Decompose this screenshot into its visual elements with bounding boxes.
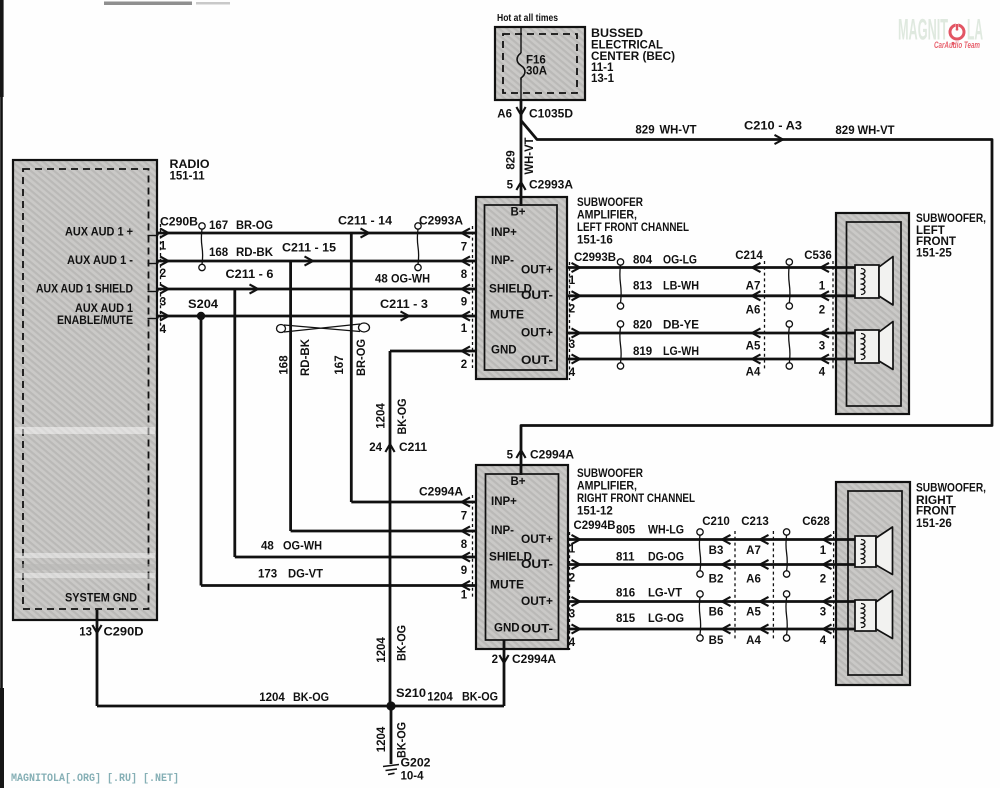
svg-text:C2993A: C2993A — [529, 180, 573, 192]
svg-text:BK-OG: BK-OG — [397, 722, 409, 758]
svg-text:2: 2 — [569, 573, 575, 585]
svg-text:C2993A: C2993A — [419, 216, 463, 228]
svg-text:7: 7 — [461, 511, 467, 523]
svg-text:3: 3 — [160, 297, 166, 309]
svg-text:S204: S204 — [188, 299, 219, 311]
svg-text:A7: A7 — [746, 281, 761, 293]
svg-text:5: 5 — [507, 180, 514, 192]
svg-text:FRONT: FRONT — [916, 506, 956, 518]
svg-text:8: 8 — [461, 539, 468, 551]
svg-text:2: 2 — [492, 654, 498, 666]
svg-text:30A: 30A — [526, 66, 547, 78]
svg-text:151-11: 151-11 — [170, 171, 206, 183]
svg-text:C211 - 15: C211 - 15 — [282, 243, 337, 255]
svg-text:C211 - 6: C211 - 6 — [226, 269, 274, 281]
svg-text:4: 4 — [160, 324, 167, 336]
svg-text:3: 3 — [569, 609, 575, 621]
svg-text:B2: B2 — [709, 574, 724, 586]
svg-text:151-12: 151-12 — [577, 506, 613, 518]
svg-text:816: 816 — [616, 588, 635, 600]
svg-text:LG-WH: LG-WH — [663, 346, 699, 358]
svg-text:A4: A4 — [746, 367, 761, 379]
svg-text:BK-OG: BK-OG — [293, 692, 329, 704]
svg-text:811: 811 — [616, 552, 635, 564]
svg-text:3: 3 — [569, 339, 575, 351]
svg-text:167: 167 — [209, 220, 228, 232]
svg-text:C290D: C290D — [104, 627, 144, 639]
svg-text:AMPLIFIER,: AMPLIFIER, — [577, 210, 637, 222]
svg-text:SUBWOOFER: SUBWOOFER — [577, 468, 644, 480]
svg-text:OUT+: OUT+ — [521, 265, 553, 277]
svg-text:4: 4 — [569, 367, 576, 379]
svg-text:C2993B: C2993B — [574, 252, 616, 264]
svg-text:820: 820 — [633, 320, 652, 332]
svg-text:INP+: INP+ — [491, 227, 517, 239]
svg-text:OG-WH: OG-WH — [283, 541, 322, 553]
svg-text:C2994B: C2994B — [574, 520, 616, 532]
svg-text:A4: A4 — [746, 635, 761, 647]
svg-text:168: 168 — [279, 355, 291, 375]
svg-text:OUT+: OUT+ — [521, 596, 553, 608]
svg-text:13-1: 13-1 — [591, 73, 615, 85]
svg-text:813: 813 — [633, 281, 652, 293]
svg-text:OUT+: OUT+ — [521, 328, 553, 340]
svg-text:24: 24 — [369, 442, 382, 454]
svg-text:SUBWOOFER,: SUBWOOFER, — [916, 213, 986, 225]
svg-text:3: 3 — [819, 341, 825, 353]
svg-text:48: 48 — [375, 274, 388, 286]
svg-text:BUSSED: BUSSED — [591, 28, 643, 40]
svg-text:1: 1 — [160, 241, 167, 253]
svg-text:4: 4 — [569, 637, 576, 649]
svg-text:RIGHT FRONT CHANNEL: RIGHT FRONT CHANNEL — [577, 493, 695, 505]
svg-text:9: 9 — [461, 565, 467, 577]
svg-text:C211: C211 — [399, 442, 428, 454]
svg-text:5: 5 — [507, 450, 514, 462]
svg-text:C536: C536 — [804, 250, 832, 262]
svg-text:MUTE: MUTE — [490, 310, 524, 322]
svg-text:A6: A6 — [746, 305, 761, 317]
svg-text:Hot at all times: Hot at all times — [497, 12, 558, 24]
svg-text:167: 167 — [334, 355, 346, 374]
svg-text:804: 804 — [633, 255, 653, 267]
svg-text:AMPLIFIER,: AMPLIFIER, — [577, 481, 637, 493]
svg-text:S210: S210 — [396, 688, 426, 700]
svg-text:GND: GND — [494, 623, 520, 635]
svg-text:C2994A: C2994A — [512, 654, 556, 666]
svg-text:1: 1 — [569, 544, 576, 556]
svg-text:AUX AUD 1 -: AUX AUD 1 - — [67, 255, 133, 267]
svg-text:DG-OG: DG-OG — [648, 552, 684, 564]
svg-text:A6: A6 — [497, 109, 512, 121]
svg-text:1204: 1204 — [427, 692, 453, 704]
svg-text:2: 2 — [160, 268, 166, 280]
svg-text:ENABLE/MUTE: ENABLE/MUTE — [57, 315, 133, 327]
svg-text:815: 815 — [616, 613, 636, 625]
svg-text:B3: B3 — [709, 545, 724, 557]
svg-text:151-26: 151-26 — [916, 518, 952, 530]
svg-text:OUT-: OUT- — [521, 355, 553, 367]
svg-text:4: 4 — [820, 635, 827, 647]
svg-text:1204: 1204 — [376, 637, 388, 663]
svg-text:LB-WH: LB-WH — [663, 281, 699, 293]
svg-text:4: 4 — [819, 367, 826, 379]
svg-text:WH-VT: WH-VT — [524, 138, 536, 175]
svg-text:LG-OG: LG-OG — [648, 613, 684, 625]
svg-text:1: 1 — [461, 590, 468, 602]
svg-text:LG-VT: LG-VT — [648, 588, 682, 600]
svg-text:C211 - 14: C211 - 14 — [338, 216, 393, 228]
svg-text:B+: B+ — [510, 207, 525, 219]
svg-text:A5: A5 — [746, 341, 761, 353]
svg-text:173: 173 — [258, 569, 277, 581]
svg-text:WH-VT: WH-VT — [660, 125, 697, 137]
svg-text:OUT-: OUT- — [521, 624, 553, 636]
svg-text:OG-LG: OG-LG — [663, 255, 697, 267]
svg-text:OG-WH: OG-WH — [391, 274, 430, 286]
svg-text:A7: A7 — [746, 545, 761, 557]
svg-text:819: 819 — [633, 346, 652, 358]
svg-text:2: 2 — [819, 305, 825, 317]
svg-text:CarAudio Team: CarAudio Team — [934, 40, 980, 50]
svg-text:C628: C628 — [802, 516, 830, 528]
svg-text:RADIO: RADIO — [170, 159, 210, 171]
svg-text:1: 1 — [820, 545, 827, 557]
svg-text:A6: A6 — [746, 574, 761, 586]
svg-text:ELECTRICAL: ELECTRICAL — [591, 40, 663, 52]
svg-text:168: 168 — [209, 247, 229, 259]
svg-text:9: 9 — [461, 297, 467, 309]
svg-text:DB-YE: DB-YE — [663, 320, 699, 332]
svg-text:BR-OG: BR-OG — [356, 339, 368, 376]
svg-text:3: 3 — [820, 607, 826, 619]
svg-text:C213: C213 — [741, 516, 769, 528]
svg-text:DG-VT: DG-VT — [288, 569, 323, 581]
svg-text:C2994A: C2994A — [419, 487, 463, 499]
svg-text:C2994A: C2994A — [530, 450, 574, 462]
svg-text:C214: C214 — [735, 250, 763, 262]
svg-text:1204: 1204 — [259, 692, 285, 704]
svg-text:C211 - 3: C211 - 3 — [380, 299, 428, 311]
svg-text:INP+: INP+ — [491, 496, 517, 508]
svg-text:LEFT FRONT CHANNEL: LEFT FRONT CHANNEL — [577, 222, 689, 234]
svg-text:RD-BK: RD-BK — [236, 247, 274, 259]
svg-text:INP-: INP- — [491, 525, 514, 537]
svg-text:AUX AUD 1: AUX AUD 1 — [75, 303, 134, 315]
svg-text:C1035D: C1035D — [529, 109, 573, 121]
svg-text:MUTE: MUTE — [490, 580, 524, 592]
svg-text:AUX AUD 1 +: AUX AUD 1 + — [65, 227, 133, 239]
svg-text:151-25: 151-25 — [916, 248, 952, 260]
svg-text:MAGNITOLA[.ORG] [.RU] [.NET]: MAGNITOLA[.ORG] [.RU] [.NET] — [11, 773, 179, 785]
svg-text:1204: 1204 — [376, 726, 388, 752]
svg-text:C210 - A3: C210 - A3 — [744, 121, 802, 133]
svg-text:1: 1 — [819, 281, 826, 293]
svg-text:B+: B+ — [510, 476, 525, 488]
svg-text:G202: G202 — [401, 758, 431, 770]
svg-text:SUBWOOFER: SUBWOOFER — [577, 197, 644, 209]
svg-text:OUT-: OUT- — [521, 290, 553, 302]
svg-text:1204: 1204 — [376, 403, 388, 429]
svg-text:829: 829 — [506, 150, 518, 169]
svg-text:BK-OG: BK-OG — [397, 625, 409, 661]
svg-text:FRONT: FRONT — [916, 236, 956, 248]
svg-text:SYSTEM GND: SYSTEM GND — [65, 593, 137, 605]
svg-text:AUX AUD 1 SHIELD: AUX AUD 1 SHIELD — [36, 284, 133, 296]
svg-text:151-16: 151-16 — [577, 235, 613, 247]
svg-text:A5: A5 — [746, 607, 761, 619]
svg-text:BR-OG: BR-OG — [236, 220, 273, 232]
svg-text:SUBWOOFER,: SUBWOOFER, — [916, 483, 986, 495]
svg-text:829: 829 — [635, 125, 654, 137]
svg-text:48: 48 — [261, 541, 274, 553]
svg-text:WH-VT: WH-VT — [858, 125, 895, 137]
svg-text:1: 1 — [461, 323, 468, 335]
svg-text:BK-OG: BK-OG — [462, 692, 498, 704]
svg-text:GND: GND — [491, 345, 517, 357]
svg-text:C290B: C290B — [160, 216, 198, 228]
svg-text:B6: B6 — [709, 607, 724, 619]
svg-text:1: 1 — [569, 275, 576, 287]
svg-text:10-4: 10-4 — [401, 771, 425, 783]
svg-text:2: 2 — [820, 574, 826, 586]
svg-text:BK-OG: BK-OG — [397, 398, 409, 434]
svg-text:RD-BK: RD-BK — [300, 338, 312, 376]
svg-text:829: 829 — [835, 125, 854, 137]
svg-text:2: 2 — [569, 304, 575, 316]
svg-text:8: 8 — [461, 269, 468, 281]
svg-text:805: 805 — [616, 525, 636, 537]
svg-text:WH-LG: WH-LG — [648, 525, 684, 537]
svg-text:2: 2 — [461, 359, 467, 371]
svg-text:OUT+: OUT+ — [521, 534, 553, 546]
svg-text:C210: C210 — [702, 516, 730, 528]
svg-text:7: 7 — [461, 242, 467, 254]
svg-text:OUT-: OUT- — [521, 559, 553, 571]
svg-text:INP-: INP- — [491, 255, 514, 267]
svg-text:B5: B5 — [709, 635, 724, 647]
svg-text:13: 13 — [79, 627, 92, 639]
